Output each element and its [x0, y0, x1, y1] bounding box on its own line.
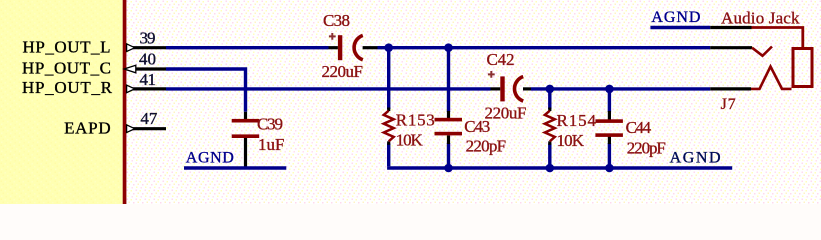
capacitor C39 1uF (center tap to AGND)	[232, 112, 285, 168]
wire: C43 bottom to ground rail	[447, 143, 450, 166]
svg-text:220pF: 220pF	[627, 139, 666, 158]
svg-text:C42: C42	[487, 50, 515, 69]
svg-text:C44: C44	[626, 118, 652, 137]
ring contact	[751, 67, 792, 89]
wire: pin41 to C42 left	[166, 87, 491, 90]
wire: pin39 to C38 left	[166, 46, 329, 49]
IC body (HP codec part, left edge)	[0, 0, 126, 204]
svg-text:39: 39	[140, 28, 156, 47]
sleeve pin	[710, 26, 751, 29]
svg-text:C38: C38	[323, 11, 350, 30]
svg-text:AGND: AGND	[670, 149, 721, 166]
svg-text:47: 47	[140, 109, 158, 128]
junction: top wire / R153 branch	[384, 43, 393, 52]
pin 40 HP_OUT_C	[22, 50, 166, 78]
sleeve connection into body	[752, 28, 803, 49]
wire: right-channel wire down to R154	[548, 89, 551, 109]
jack body rect	[793, 49, 812, 87]
svg-text:10K: 10K	[557, 131, 585, 150]
AGND power bar under C39	[184, 150, 286, 169]
wire: R154 bottom to ground rail	[548, 144, 551, 167]
tip contact	[752, 47, 772, 56]
capacitor C43 220pF	[435, 111, 507, 156]
ground rail wire (bottom AGND net)	[387, 166, 732, 169]
ring pin	[710, 87, 751, 90]
svg-text:HP_OUT_L: HP_OUT_L	[23, 38, 111, 57]
junction: ground rail / C44	[605, 164, 614, 173]
svg-text:J7: J7	[721, 96, 736, 113]
capacitor C42 (polarized 220uF, series on right channel)	[485, 50, 532, 123]
resistor R154 10K	[545, 108, 597, 150]
svg-text:220uF: 220uF	[485, 103, 527, 122]
capacitor C38 (polarized 220uF, series on left channel)	[322, 11, 378, 81]
junction: right-channel wire / R154 branch	[546, 85, 555, 94]
svg-text:Audio Jack: Audio Jack	[721, 8, 800, 27]
pin 41 HP_OUT_R	[22, 70, 166, 97]
svg-text:HP_OUT_R: HP_OUT_R	[22, 78, 113, 97]
wire: R153 bottom to ground rail	[387, 144, 390, 167]
svg-text:HP_OUT_C: HP_OUT_C	[22, 58, 111, 77]
pin 39 HP_OUT_L	[23, 28, 167, 56]
svg-text:EAPD: EAPD	[64, 119, 111, 138]
junction: ground rail / R154	[546, 164, 555, 173]
svg-text:C39: C39	[257, 115, 283, 134]
capacitor C44 220pF	[595, 111, 665, 158]
svg-text:220uF: 220uF	[322, 62, 364, 81]
svg-text:1uF: 1uF	[258, 135, 285, 154]
wire: C38 right to jack tip pin	[378, 46, 711, 49]
svg-text:AGND: AGND	[651, 9, 700, 26]
audio jack J7	[710, 8, 812, 113]
AGND wire to jack sleeve	[650, 9, 710, 27]
svg-text:AGND: AGND	[186, 150, 234, 167]
svg-text:220pF: 220pF	[466, 137, 507, 156]
svg-text:R154: R154	[557, 111, 597, 130]
wire: pin40 over and down to C39	[166, 69, 246, 112]
tip pin	[710, 46, 752, 49]
wire: right-channel wire down to C44	[608, 89, 611, 112]
pin 47 EAPD	[64, 109, 166, 137]
wire: top wire down to C43 (crosses right-channel wire)	[447, 48, 450, 112]
resistor R153 10K	[384, 108, 435, 150]
junction: ground rail / C43	[444, 164, 453, 173]
junction: top wire / C43 branch	[444, 43, 453, 52]
wire: C42 right to jack ring pin	[531, 87, 710, 90]
svg-text:R153: R153	[396, 111, 435, 130]
svg-text:41: 41	[140, 70, 157, 89]
junction: right-channel wire / C44 branch	[605, 85, 614, 94]
wire: top wire down to R153 (crosses right-channel wire)	[387, 48, 390, 109]
svg-text:10K: 10K	[396, 131, 424, 150]
wire: C44 bottom to ground rail	[608, 143, 611, 166]
svg-text:40: 40	[139, 50, 156, 69]
